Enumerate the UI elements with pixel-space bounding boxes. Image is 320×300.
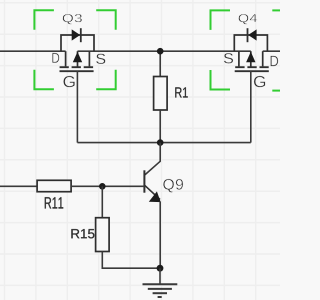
Q3 substrate arrow xyxy=(73,52,82,63)
ground bar 1 xyxy=(143,283,178,285)
Q3 substrate line xyxy=(77,51,79,67)
Q9 collector wire xyxy=(145,143,161,175)
pin label D of Q3 xyxy=(52,53,59,63)
wire: main rail Q3 source to Q4 source xyxy=(78,50,251,52)
junction node at top rail and R1 xyxy=(157,48,164,55)
label R11 xyxy=(45,197,63,208)
wire: R15 bottom lead to ground rail xyxy=(102,252,160,269)
Q9 emitter diagonal xyxy=(145,185,160,199)
label Q9 xyxy=(163,179,183,193)
R11 body xyxy=(37,180,71,191)
pin label G of Q4 xyxy=(254,76,265,87)
resistor R11 xyxy=(0,180,144,208)
ground xyxy=(143,268,178,297)
label Q3 xyxy=(63,14,82,24)
Q4 body diode branch xyxy=(234,35,267,51)
wire: R1 bottom lead xyxy=(159,110,161,143)
Q4 body diode triangle xyxy=(248,29,257,40)
selection bracket Q3 top-left xyxy=(34,10,54,30)
resistor R1 xyxy=(154,51,188,142)
label Q4 xyxy=(239,14,258,24)
wire: base rail from left edge xyxy=(0,185,37,187)
selection bracket Q3 bottom-right xyxy=(96,70,116,90)
pin label S of Q3 xyxy=(96,54,105,64)
Q3 body diode branch xyxy=(61,35,94,51)
junction node base/R15 xyxy=(99,183,106,190)
Q3 body diode triangle xyxy=(72,29,81,40)
wire: main rail Q4 drain to right edge xyxy=(263,50,280,52)
junction node at gate rail and R1 bottom xyxy=(157,139,164,146)
label R1 xyxy=(175,87,187,97)
Q3 source stub xyxy=(88,51,90,66)
Q4 substrate arrow xyxy=(246,52,255,63)
selection bracket Q3 bottom-left xyxy=(34,70,54,90)
selection bracket Q4 bottom-right (partially visible) xyxy=(272,90,280,92)
ground bar 4 xyxy=(158,296,162,298)
R15 body xyxy=(96,218,110,252)
pin label G of Q3 xyxy=(63,76,74,87)
wire: R15 top lead xyxy=(101,186,103,217)
selection bracket Q4 top-left xyxy=(211,10,231,30)
mosfet Q3 xyxy=(60,28,95,71)
wire: main rail left segment to Q3 drain xyxy=(0,50,66,52)
pin label D of Q4 xyxy=(271,56,279,66)
Q4 source stub xyxy=(238,51,240,66)
pin label S of Q4 xyxy=(224,53,233,63)
ground stub xyxy=(159,268,161,284)
wire: R1 top lead xyxy=(159,51,161,76)
wire: Q3 gate down to gate rail xyxy=(76,71,78,143)
selection bracket Q4 bottom-left xyxy=(211,70,231,90)
Q3 body diode cathode bar xyxy=(80,28,82,42)
Q9 emitter wire down xyxy=(159,202,161,269)
selection bracket Q4 top-right (partially visible) xyxy=(272,9,280,11)
Q4 gate plate xyxy=(235,70,269,72)
mosfet Q4 xyxy=(234,28,268,71)
Q9 base bar xyxy=(143,170,145,192)
Q3 gate plate xyxy=(60,70,94,72)
selection bracket Q3 top-right xyxy=(96,10,116,30)
ground bar 3 xyxy=(153,292,167,294)
transistor Q9 xyxy=(144,143,183,269)
Q4 body diode cathode bar xyxy=(247,28,249,42)
Q4 channel dashes xyxy=(235,66,269,68)
R1 body xyxy=(154,77,168,111)
wire: Q4 gate down to gate rail xyxy=(250,71,252,143)
label R15 xyxy=(71,229,94,238)
Q3 drain stub xyxy=(65,51,67,66)
wire: R11 to Q9 base xyxy=(71,185,144,187)
Q4 drain stub xyxy=(262,51,264,66)
ground bar 2 xyxy=(148,288,172,290)
wire: gate rail xyxy=(77,142,250,144)
Q3 channel dashes xyxy=(60,66,94,68)
Q4 substrate line xyxy=(250,51,252,67)
junction node at ground xyxy=(157,265,164,272)
Q9 emitter arrow xyxy=(149,191,161,202)
resistor R15 xyxy=(71,186,160,268)
